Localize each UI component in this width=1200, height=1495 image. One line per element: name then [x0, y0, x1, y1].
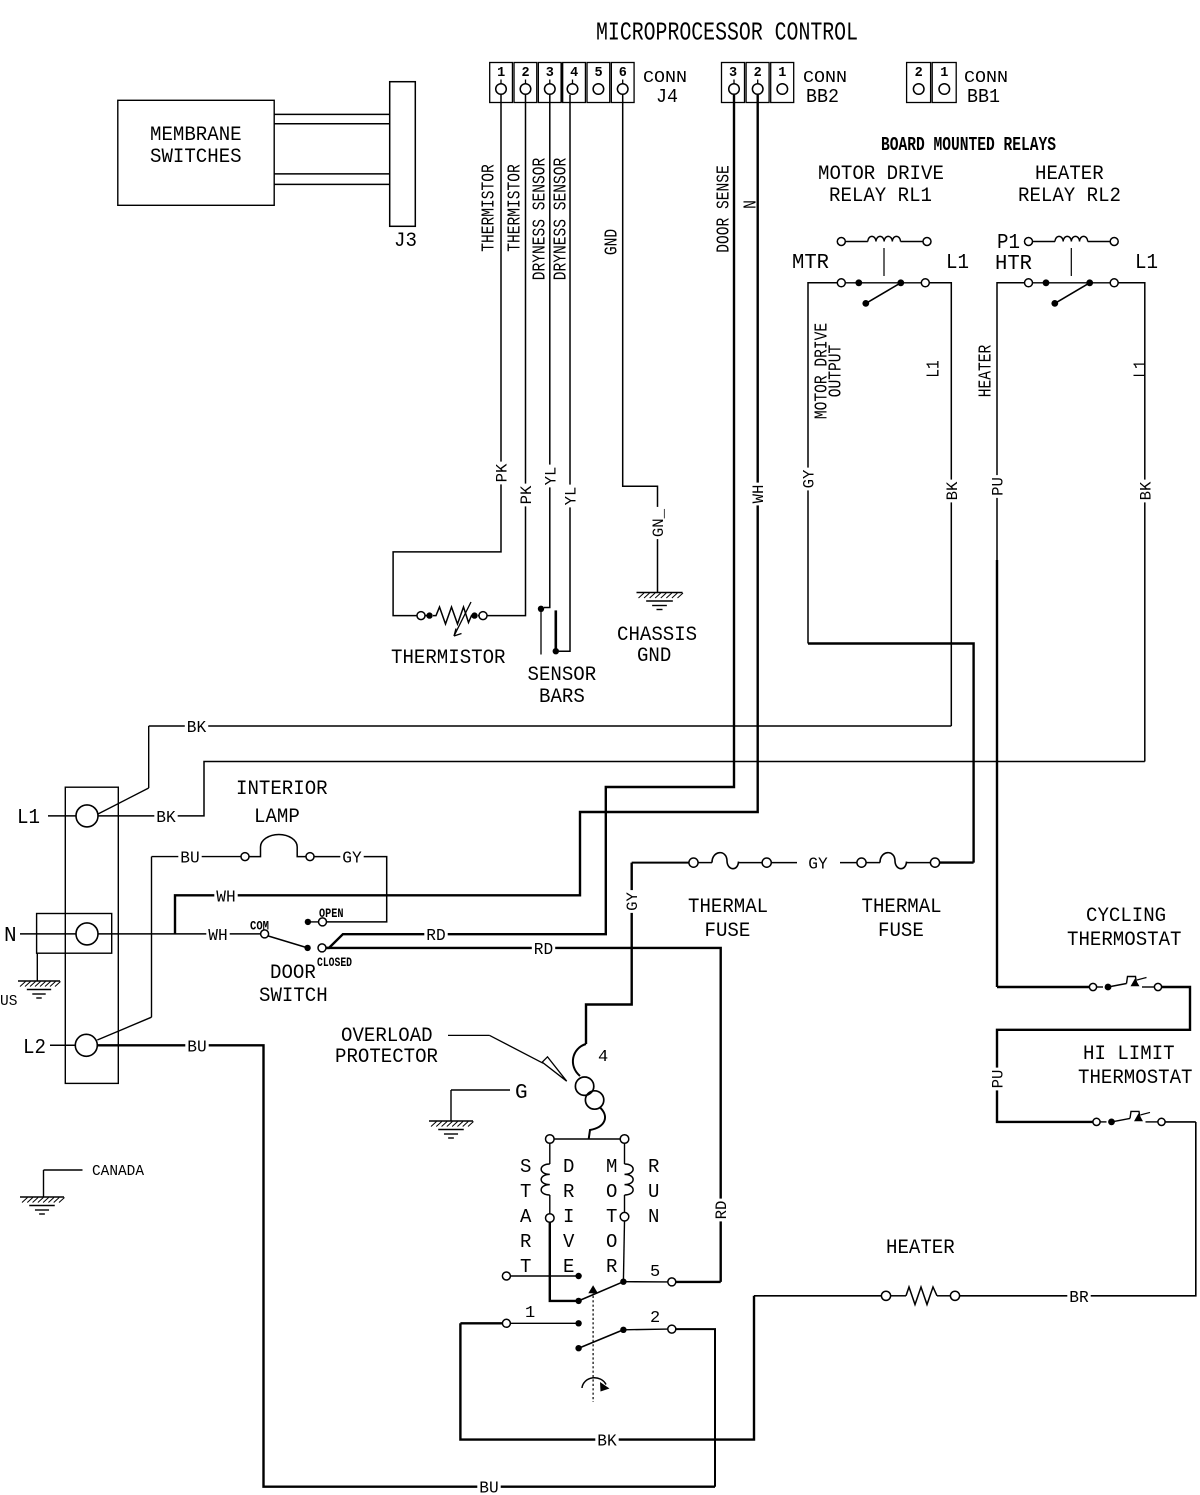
svg-text:3: 3 [729, 66, 737, 81]
svg-text:OVERLOAD: OVERLOAD [341, 1025, 433, 1048]
svg-text:2: 2 [915, 66, 923, 81]
label BK bottom [595, 1432, 618, 1447]
wire L1 to L1 bus (BK) [98, 762, 1145, 816]
label GY rl1 [801, 468, 815, 491]
membrane switches box [118, 100, 274, 205]
svg-text:1: 1 [497, 66, 505, 81]
ground G [451, 1089, 510, 1091]
wire cycling to hi-limit (PU) [997, 987, 1190, 1122]
overload protector [575, 1077, 593, 1095]
svg-text:J4: J4 [656, 86, 678, 108]
label BU bottom [477, 1479, 500, 1494]
contact stub 5nc [502, 1272, 510, 1280]
svg-text:THERMOSTAT: THERMOSTAT [1078, 1067, 1193, 1090]
svg-text:N: N [648, 1206, 659, 1228]
svg-text:YL: YL [563, 487, 581, 506]
label BR [1067, 1288, 1090, 1303]
svg-text:BARS: BARS [539, 686, 585, 709]
door switch COM [261, 930, 269, 938]
label GN [651, 507, 665, 539]
relay RL1 link [883, 248, 885, 276]
svg-text:WH: WH [750, 485, 768, 504]
svg-text:N: N [4, 925, 17, 948]
label PK pin1 [494, 462, 508, 485]
svg-text:R: R [648, 1156, 659, 1178]
svg-text:MICROPROCESSOR CONTROL: MICROPROCESSOR CONTROL [596, 18, 858, 48]
svg-text:HEATER: HEATER [976, 345, 996, 398]
wire J4 pin2 thermistor (PK) [488, 95, 526, 616]
wire start winding to blade1 [550, 1222, 579, 1301]
svg-text:L1: L1 [1135, 252, 1158, 275]
relay RL2 coil [1025, 238, 1033, 246]
label PU rl2 [990, 475, 1004, 498]
svg-text:BR: BR [1069, 1289, 1088, 1308]
svg-text:THERMAL: THERMAL [688, 896, 768, 919]
svg-text:CANADA: CANADA [92, 1163, 144, 1180]
wire L2 to BU bus [97, 1045, 715, 1486]
relay RL1 contacts [837, 279, 845, 287]
wire hi-limit to heater [1165, 1121, 1196, 1123]
wire RL2 HTR (PU) [997, 283, 1025, 560]
svg-text:BK: BK [156, 809, 176, 828]
connector CONN J4 (6-pin) [490, 63, 513, 103]
svg-text:RELAY RL2: RELAY RL2 [1018, 185, 1121, 208]
wire GY to motor [586, 863, 632, 1044]
svg-text:YL: YL [542, 467, 560, 486]
chassis ground symbol [637, 592, 683, 594]
ground US [36, 953, 38, 981]
label GY rotated [625, 890, 639, 913]
svg-text:HEATER: HEATER [1035, 163, 1104, 186]
svg-text:THERMISTOR: THERMISTOR [391, 647, 506, 670]
svg-text:T: T [606, 1206, 617, 1228]
wire heater to hi-limit (BR) [960, 1122, 1196, 1296]
hi limit thermostat switch [1093, 1118, 1100, 1125]
label YL pin3 [543, 465, 557, 488]
label GY lamp [340, 849, 363, 864]
wire BK bottom [460, 1296, 754, 1440]
overload protector wire out [589, 1108, 605, 1140]
svg-text:BU: BU [479, 1480, 498, 1495]
terminal strip [65, 787, 118, 1083]
wire RD door sense [326, 95, 734, 948]
svg-text:O: O [606, 1231, 617, 1253]
connector CONN BB1 (2-pin) [907, 63, 931, 103]
label BK rl2 [1138, 480, 1152, 503]
wire RD closed to motor term5 [326, 948, 721, 1282]
label GY fuse row [806, 855, 829, 870]
connector J3 [390, 82, 416, 227]
svg-text:A: A [520, 1206, 532, 1228]
svg-text:DRYNESS SENSOR: DRYNESS SENSOR [530, 158, 550, 281]
label YL pin4 [563, 485, 577, 508]
wire J4 pin3 dryness sensor (YL) [544, 95, 550, 608]
motor terminal 1 [502, 1319, 510, 1327]
svg-text:DOOR: DOOR [270, 962, 316, 985]
svg-text:S: S [520, 1156, 531, 1178]
label BU l2 [185, 1038, 208, 1053]
svg-text:MTR: MTR [792, 252, 829, 275]
wire fuse middle [771, 862, 797, 864]
svg-text:BK: BK [944, 481, 962, 500]
wire J4 pin6 chassis ground (GN) [623, 95, 658, 593]
rotation arrow [582, 1378, 606, 1388]
label BK l1 row [154, 808, 177, 823]
svg-text:J3: J3 [394, 230, 417, 253]
svg-text:R: R [520, 1231, 531, 1253]
svg-text:SWITCHES: SWITCHES [150, 146, 242, 169]
wire WH neutral [175, 95, 758, 934]
svg-text:L1: L1 [924, 360, 944, 378]
svg-text:WH: WH [216, 888, 235, 907]
svg-text:RELAY RL1: RELAY RL1 [829, 185, 932, 208]
ribbon cable lower [274, 173, 390, 175]
svg-text:BB2: BB2 [806, 86, 839, 108]
svg-text:V: V [563, 1231, 575, 1253]
svg-text:HEATER: HEATER [886, 1237, 955, 1260]
svg-text:HI LIMIT: HI LIMIT [1083, 1043, 1175, 1066]
switch blade 1 [575, 1298, 581, 1304]
wire fuse row right to RL1 output [940, 861, 974, 863]
svg-text:6: 6 [619, 66, 627, 81]
label BK bus [185, 719, 208, 734]
svg-text:T: T [520, 1256, 531, 1278]
svg-text:GY: GY [808, 856, 827, 875]
door switch CLOSED contact [318, 944, 326, 952]
wire terminal5 to RD [676, 1281, 721, 1283]
svg-text:BOARD MOUNTED RELAYS: BOARD MOUNTED RELAYS [881, 134, 1056, 156]
svg-text:BK: BK [187, 719, 207, 738]
svg-text:G: G [515, 1082, 528, 1105]
wire RL1 MTR output (GY) [808, 283, 837, 644]
svg-text:RD: RD [426, 927, 445, 946]
svg-text:2: 2 [521, 66, 529, 81]
svg-text:PROTECTOR: PROTECTOR [335, 1046, 438, 1069]
terminal L2 [75, 1034, 97, 1056]
svg-text:COM: COM [250, 919, 269, 934]
label WH rotated [751, 483, 765, 506]
svg-text:PU: PU [990, 477, 1008, 496]
label RD rotated [714, 1199, 728, 1222]
svg-text:WH: WH [208, 927, 227, 946]
svg-text:M: M [606, 1156, 617, 1178]
svg-text:GY: GY [801, 469, 819, 488]
wire L2 to lamp (BU) [97, 1017, 151, 1040]
ribbon cable upper [274, 113, 390, 115]
wire PU to cycling thermostat [997, 986, 1089, 988]
svg-text:GN_: GN_ [650, 509, 668, 538]
svg-text:BU: BU [187, 1038, 206, 1057]
wire terminal2 to BU [676, 1329, 715, 1487]
heater element [754, 1295, 881, 1297]
door switch OPEN contact [305, 919, 311, 925]
wire GY fuse row left [632, 862, 689, 864]
svg-text:BU: BU [180, 850, 199, 869]
thermistor arrow [454, 602, 471, 636]
thermal fuse 2 [857, 858, 866, 867]
wire J4 pin1 thermistor (PK) [393, 95, 501, 616]
svg-text:U: U [648, 1181, 659, 1203]
svg-text:LAMP: LAMP [254, 806, 300, 829]
svg-text:THERMAL: THERMAL [862, 896, 942, 919]
svg-text:BB1: BB1 [967, 86, 1000, 108]
terminal N box [37, 914, 112, 954]
svg-text:L1: L1 [1131, 360, 1151, 378]
svg-text:L1: L1 [946, 252, 969, 275]
svg-text:SWITCH: SWITCH [259, 985, 328, 1008]
svg-text:DOOR SENSE: DOOR SENSE [714, 165, 734, 253]
svg-text:DRYNESS SENSOR: DRYNESS SENSOR [551, 158, 571, 281]
centrifugal link [592, 1287, 594, 1402]
wire RL2 L1 (BK) [1118, 283, 1145, 762]
svg-text:L2: L2 [23, 1037, 46, 1060]
interior lamp [241, 853, 249, 861]
motor terminal 2 [623, 1328, 667, 1331]
svg-text:PU: PU [990, 1070, 1008, 1089]
terminal N [76, 923, 98, 945]
motor start winding [549, 1144, 551, 1165]
svg-text:T: T [520, 1181, 531, 1203]
svg-text:1: 1 [778, 66, 786, 81]
wire terminal1 feed [460, 1322, 502, 1324]
svg-text:GND: GND [602, 229, 622, 255]
motor terminal 5 [623, 1281, 667, 1283]
svg-text:PK: PK [494, 463, 512, 482]
motor top edge [546, 1135, 555, 1144]
wire run winding to pivot [623, 1221, 624, 1282]
svg-text:D: D [563, 1156, 574, 1178]
svg-text:P1: P1 [997, 232, 1020, 255]
ground CANADA [44, 1169, 83, 1171]
wire N to door switch COM (WH) [98, 933, 261, 935]
svg-text:2: 2 [650, 1309, 660, 1328]
svg-text:FUSE: FUSE [878, 920, 924, 943]
svg-text:GY: GY [342, 850, 361, 869]
overload protector wire in [573, 1044, 586, 1076]
motor run winding [624, 1144, 626, 1165]
svg-text:CHASSIS: CHASSIS [617, 624, 697, 647]
svg-text:3: 3 [546, 66, 554, 81]
svg-text:4: 4 [598, 1048, 608, 1067]
svg-text:MOTOR DRIVE: MOTOR DRIVE [818, 163, 944, 186]
wire RL1 L1 (BK) [929, 283, 951, 726]
svg-text:BK: BK [597, 1433, 617, 1452]
sensor bar junction dot pin4 [553, 648, 559, 654]
sensor bar 1 (thin) [540, 611, 542, 655]
svg-text:RD: RD [534, 941, 553, 960]
thermistor [417, 612, 425, 620]
svg-text:5: 5 [594, 66, 602, 81]
label BU lamp [178, 849, 201, 864]
svg-text:GND: GND [637, 645, 671, 668]
svg-text:R: R [606, 1256, 617, 1278]
svg-text:RD: RD [713, 1201, 731, 1220]
label RD upper [424, 927, 447, 942]
svg-text:THERMOSTAT: THERMOSTAT [1067, 929, 1182, 952]
svg-text:SENSOR: SENSOR [528, 664, 597, 687]
overload leader arrow [448, 1034, 490, 1036]
wire J4 pin4 dryness sensor (YL) [559, 95, 570, 651]
relay RL2 link [1070, 248, 1072, 276]
relay RL1 coil [837, 238, 845, 246]
svg-text:R: R [563, 1181, 574, 1203]
svg-text:5: 5 [650, 1263, 660, 1282]
svg-text:1: 1 [525, 1304, 535, 1323]
svg-text:INTERIOR: INTERIOR [236, 778, 328, 801]
label WH mid [214, 888, 237, 903]
svg-text:US: US [0, 993, 17, 1010]
svg-text:O: O [606, 1181, 617, 1203]
svg-text:E: E [563, 1256, 574, 1278]
svg-text:OPEN: OPEN [319, 906, 344, 921]
svg-text:THERMISTOR: THERMISTOR [505, 164, 525, 252]
svg-text:CYCLING: CYCLING [1086, 905, 1166, 928]
label RD lower [532, 940, 555, 955]
svg-text:BK: BK [1137, 481, 1155, 500]
svg-text:FUSE: FUSE [705, 920, 751, 943]
svg-text:MEMBRANE: MEMBRANE [150, 124, 242, 147]
label BK rl1 [944, 480, 958, 503]
svg-text:2: 2 [754, 66, 762, 81]
label PK pin2 [519, 484, 533, 507]
svg-text:HTR: HTR [995, 253, 1032, 276]
label WH n row [206, 926, 229, 941]
svg-text:I: I [563, 1206, 574, 1228]
cycling thermostat switch [1089, 983, 1096, 990]
wire lamp to door switch OPEN (GY) [314, 857, 387, 922]
svg-text:L1: L1 [17, 807, 40, 830]
svg-text:THERMISTOR: THERMISTOR [479, 164, 499, 252]
svg-text:4: 4 [570, 66, 578, 81]
svg-text:OUTPUT: OUTPUT [826, 345, 846, 398]
wire BK bus to relay RL1 [149, 725, 952, 727]
door switch blade [268, 936, 307, 948]
svg-text:GY: GY [624, 892, 642, 911]
label PU hi-limit [990, 1068, 1004, 1091]
thermal fuse 1 [689, 858, 698, 867]
switch blade 2 [575, 1345, 581, 1351]
svg-text:CLOSED: CLOSED [317, 955, 352, 970]
relay RL2 contacts [1025, 279, 1033, 287]
svg-text:PK: PK [518, 485, 536, 504]
sensor bar 2 (thick) [554, 610, 557, 649]
svg-text:1: 1 [940, 66, 948, 81]
connector CONN BB2 (3-pin) [722, 63, 745, 103]
sensor bar junction dot pin3 [538, 606, 544, 612]
terminal L1 [76, 805, 98, 827]
wire L1 to BK bus diagonal [98, 788, 149, 814]
